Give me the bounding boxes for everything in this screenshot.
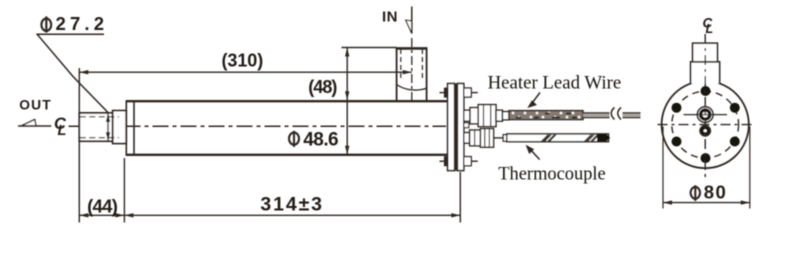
dimension (310) line <box>79 70 412 74</box>
svg-text:314±3: 314±3 <box>260 193 322 215</box>
dimension φ80 text <box>691 181 726 202</box>
end view horizontal centerline <box>658 124 754 126</box>
svg-text:(48): (48) <box>308 77 337 97</box>
extension line at inlet pipe top <box>342 47 397 49</box>
OUT flow arrow <box>18 120 51 127</box>
Thermocouple leader arrow <box>526 145 540 160</box>
svg-text:Thermocouple: Thermocouple <box>498 164 605 184</box>
body end cap ring <box>133 101 135 155</box>
wire: left extension line <box>78 68 80 223</box>
thermocouple gland fittings <box>464 129 494 148</box>
dimension φ27.2 measure arrow inside pipe <box>106 113 110 141</box>
dimension φ80 <box>663 127 750 209</box>
flange face plug between glands <box>464 123 469 128</box>
inlet pipe centerline <box>411 38 413 103</box>
centerline symbol top right <box>703 16 714 36</box>
heater lead wire gland fittings <box>464 105 509 127</box>
end view bolt circle <box>672 91 739 158</box>
end view center fitting <box>684 107 728 123</box>
end view bolts <box>672 86 740 163</box>
flange plates <box>448 84 464 171</box>
bottom dimension lines (44) and 314±3 <box>79 158 460 223</box>
inlet pipe side view <box>396 48 428 101</box>
svg-text:L: L <box>58 123 67 139</box>
Heater Lead Wire leader arrow <box>527 93 540 109</box>
svg-text:OUT: OUT <box>19 97 51 112</box>
svg-text:80: 80 <box>704 181 726 202</box>
end view outer circle <box>662 81 749 168</box>
IN flow arrow <box>406 7 412 34</box>
end view inlet pipe <box>691 43 720 83</box>
svg-text:Heater Lead Wire: Heater Lead Wire <box>488 74 622 94</box>
flange bolt bottom <box>440 157 478 166</box>
dimension φ48.6 text <box>289 129 339 150</box>
svg-text:27.2: 27.2 <box>56 13 105 34</box>
flange bolt top <box>440 88 478 97</box>
heater lead wire tail with break <box>583 108 641 120</box>
outlet pipe <box>79 111 126 144</box>
svg-text:IN: IN <box>382 9 398 26</box>
svg-text:48.6: 48.6 <box>303 129 338 150</box>
svg-text:(44): (44) <box>87 195 118 216</box>
dimension (48) vertical line with arrows <box>345 48 349 155</box>
heater lead wire braid <box>509 111 583 120</box>
centerline of heater body <box>69 125 447 127</box>
thermocouple sheath tube <box>494 134 610 142</box>
end view vertical centerline <box>704 34 706 179</box>
svg-text:(310): (310) <box>222 50 264 70</box>
centerline symbol left <box>54 115 67 139</box>
dimension φ27.2 leader line <box>36 34 108 112</box>
end view thermocouple port <box>700 126 710 136</box>
heater body shell <box>126 100 447 156</box>
dimension φ27.2 text <box>41 13 104 34</box>
svg-text:L: L <box>706 22 714 36</box>
